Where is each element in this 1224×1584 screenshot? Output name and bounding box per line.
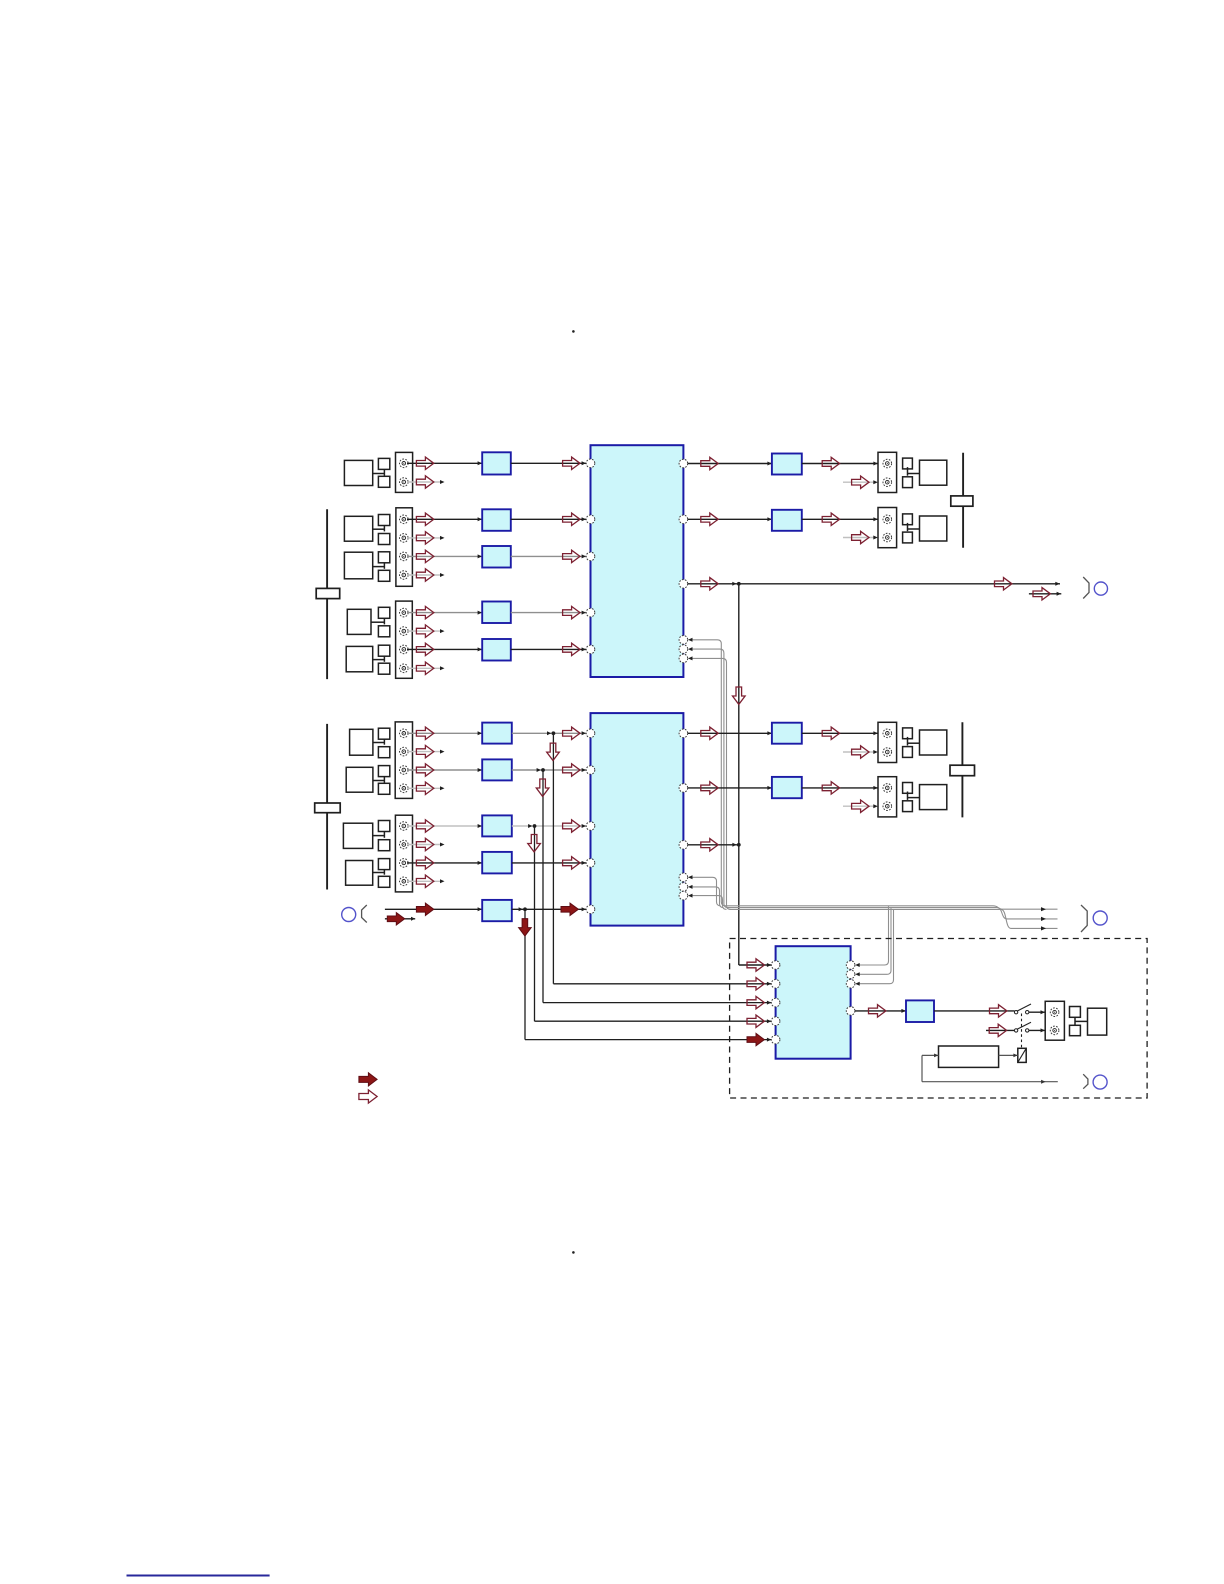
- wire rowA1 to filter: [407, 731, 482, 735]
- wire filter10 to selector: [512, 907, 586, 911]
- signal flow arrow: [747, 959, 764, 971]
- wire filter2 to selector IC: [511, 517, 586, 521]
- record-out bundle to recorder: [724, 906, 1057, 931]
- input selector IC U2: [591, 713, 684, 926]
- pin U2-in1: [586, 729, 595, 738]
- pin U2-out3: [679, 841, 688, 850]
- signal flow arrow: [563, 513, 580, 525]
- pin U1-out2: [679, 515, 688, 524]
- filter block F10: [482, 900, 512, 921]
- pin U2-in2: [586, 766, 595, 775]
- input jack block J3: [396, 601, 413, 678]
- input jack block J5: [395, 815, 412, 892]
- signal flow arrow: [416, 643, 433, 655]
- input device box 1 (CD player): [344, 458, 389, 487]
- pin U2-rec1: [679, 873, 688, 882]
- signal flow arrow: [416, 875, 433, 887]
- wire buffer to rec switch: [934, 1010, 1015, 1012]
- wire U1 out1 to amp: [688, 462, 772, 466]
- filter block F6: [482, 723, 512, 744]
- signal flow arrow: [701, 513, 718, 525]
- signal flow arrow: [416, 820, 433, 832]
- feed stub to jack R3b: [843, 750, 878, 754]
- speaker output group R3: [878, 722, 947, 762]
- terminated stub row3b: [407, 573, 445, 577]
- signal flow arrow down: [733, 687, 746, 704]
- input device box 2 (MD deck): [344, 515, 389, 545]
- pin U1-in5: [586, 645, 595, 654]
- wire U1 out3 line-out: [688, 582, 1060, 586]
- terminated stub row5b: [407, 666, 445, 670]
- wire amp3 to speaker jack: [802, 731, 878, 735]
- wire CD signal to filter: [407, 461, 482, 465]
- signal flow arrow: [990, 1005, 1007, 1017]
- signal flow arrow: [747, 1015, 764, 1027]
- signal flow arrow: [822, 782, 839, 794]
- filter block F8: [482, 815, 512, 836]
- signal flow arrow down: [547, 743, 560, 760]
- wire row4 to filter: [407, 611, 482, 615]
- pin U3-in5: [771, 1035, 780, 1044]
- record mute switch SW1: [1014, 1004, 1031, 1014]
- pin U2-out2: [679, 784, 688, 793]
- signal flow arrow: [416, 569, 433, 581]
- signal flow arrow: [563, 764, 580, 776]
- signal flow arrow: [416, 727, 433, 739]
- signal flow arrow down: [536, 779, 549, 796]
- pin U2-rec3: [679, 891, 688, 900]
- wire rowA2 to filter: [407, 768, 482, 772]
- pin U3-in1: [771, 961, 780, 970]
- signal flow arrow: [563, 606, 580, 618]
- signal flow arrow: [416, 513, 433, 525]
- signal flow arrow: [747, 996, 764, 1008]
- wire filter5 to selector IC: [511, 647, 586, 651]
- wire row3 to filter: [407, 554, 482, 558]
- terminated stub rowA1b: [407, 750, 445, 754]
- bus bar with terminal plate (S1): [316, 509, 340, 679]
- phono source circle: [342, 908, 356, 922]
- wire control to relay: [999, 1054, 1018, 1058]
- wire U1 out2 to amp: [688, 517, 772, 521]
- tap wire A1 to U3 pin2: [553, 733, 771, 986]
- wire switch to rec jack: [1029, 1010, 1045, 1014]
- terminated stub rowB3b: [407, 843, 445, 847]
- signal flow arrow down solid: [519, 919, 532, 936]
- wire U3 out to buffer: [855, 1009, 906, 1013]
- signal flow arrow: [416, 745, 433, 757]
- line-out target circle: [1094, 582, 1107, 595]
- connector bracket: [1081, 905, 1087, 932]
- amp block A4: [772, 777, 802, 798]
- pin U3-out: [846, 1007, 855, 1016]
- signal flow arrow: [822, 727, 839, 739]
- feed stub to jack R1b: [843, 480, 878, 484]
- buffer block F11: [906, 1000, 934, 1022]
- aux stub line-out: [1029, 592, 1061, 596]
- signal flow arrow: [416, 857, 433, 869]
- filter block F7: [482, 759, 512, 780]
- signal flow arrow: [852, 476, 869, 488]
- pin U1-rec1: [679, 636, 688, 645]
- rec jack block J6: [1045, 1001, 1064, 1040]
- pin U1-rec2: [679, 645, 688, 654]
- signal flow arrow: [563, 457, 580, 469]
- wire rowB4 to filter: [407, 861, 482, 865]
- wire row5 to filter: [407, 647, 482, 651]
- signal flow arrow: [563, 820, 580, 832]
- wire U2 out2 to amp: [688, 786, 772, 790]
- speaker output group R1: [878, 452, 947, 492]
- signal flow arrow: [416, 532, 433, 544]
- footer link line: [127, 1575, 270, 1577]
- terminated stub row2b: [407, 536, 445, 540]
- signal flow arrow: [416, 662, 433, 674]
- signal flow arrow: [822, 513, 839, 525]
- pin U3-in3: [771, 998, 780, 1007]
- signal flow arrow: [416, 782, 433, 794]
- rec plug square: [1070, 1025, 1081, 1035]
- system control block: [939, 1046, 999, 1067]
- pin U1-in1: [586, 459, 595, 468]
- recorder target circle: [1093, 911, 1107, 925]
- input jack block J1: [396, 452, 413, 492]
- wire filter3 to selector IC: [511, 554, 586, 558]
- signal flow arrow: [416, 550, 433, 562]
- record mute switch SW2: [1014, 1022, 1031, 1032]
- input device box 3 (tape deck): [344, 552, 389, 582]
- signal flow arrow: [822, 457, 839, 469]
- filter block F2: [482, 509, 511, 531]
- rec plug square: [1070, 1007, 1081, 1018]
- signal flow arrow solid: [387, 913, 404, 925]
- signal flow arrow: [563, 550, 580, 562]
- signal flow arrow: [701, 457, 718, 469]
- feed stub to jack R2b: [843, 536, 878, 540]
- wire filter6 to selector, tap junction: [512, 731, 586, 735]
- signal flow arrow: [416, 457, 433, 469]
- wire amp1 to speaker jack: [802, 462, 878, 466]
- filter block F3: [482, 546, 511, 568]
- input device box 4 (tuner): [347, 607, 390, 637]
- pin U2-in5: [586, 905, 595, 914]
- pin U1-in3: [586, 552, 595, 561]
- signal flow arrow: [701, 839, 718, 851]
- junction at vertical feed: [732, 582, 740, 586]
- signal flow arrow: [416, 476, 433, 488]
- signal flow arrow: [869, 1005, 886, 1017]
- tap wire B3 to U3 pin4: [535, 826, 772, 1023]
- signal flow arrow: [416, 606, 433, 618]
- signal flow arrow: [701, 578, 718, 590]
- wire filter to selector IC: [511, 461, 586, 465]
- feed stub to rec jack 2: [986, 1029, 1015, 1031]
- speaker output group R2: [878, 508, 947, 548]
- input device box 6: [350, 728, 390, 758]
- control target circle: [1093, 1075, 1107, 1089]
- wire amp4 to speaker jack: [802, 786, 878, 790]
- dashed enclosure (record selector unit): [730, 939, 1148, 1099]
- signal flow arrow: [563, 857, 580, 869]
- signal flow arrow: [701, 727, 718, 739]
- amp block A3: [772, 723, 802, 744]
- filter block F9: [482, 852, 512, 874]
- filter block F4: [482, 602, 511, 624]
- wire row2 to filter: [407, 517, 482, 521]
- wire vertical feed to record selector: [739, 584, 772, 967]
- signal flow arrow: [701, 782, 718, 794]
- input device box 5 (aux): [346, 645, 390, 674]
- wire U2 out1 to amp: [688, 731, 772, 735]
- wire rowB3 to filter: [407, 824, 482, 828]
- bus bar with terminal plate (S2): [315, 724, 341, 890]
- stray dot: [572, 1251, 575, 1254]
- signal flow arrow solid: [416, 903, 433, 915]
- pin U1-in2: [586, 515, 595, 524]
- pin U3-mon3: [846, 979, 855, 988]
- signal flow arrow solid: [561, 903, 578, 915]
- connector bracket: [1083, 577, 1089, 599]
- signal flow arrow: [995, 578, 1012, 590]
- wire amp2 to speaker jack: [802, 517, 878, 521]
- record-out bundle from U1: [688, 638, 731, 910]
- wire filter8 to selector, tap junction: [512, 824, 586, 828]
- input device box 8: [343, 821, 389, 851]
- speaker output group R4: [878, 777, 947, 817]
- connector bracket: [362, 905, 367, 923]
- terminated stub rowB4b: [407, 879, 445, 883]
- legend solid arrow: [359, 1073, 377, 1086]
- mute relay K1: [1018, 1048, 1026, 1062]
- terminated stub row4b: [407, 629, 445, 633]
- wire U2 out3 to feed line: [688, 843, 741, 847]
- record-out bundle from U2: [688, 875, 727, 909]
- signal flow arrow solid: [747, 1033, 764, 1045]
- input device box 9: [346, 859, 390, 888]
- phono stub line: [385, 917, 415, 921]
- signal flow arrow down: [528, 835, 541, 852]
- amp block A2: [772, 510, 802, 531]
- speaker bus bar S2: [950, 722, 975, 817]
- signal flow arrow: [416, 625, 433, 637]
- pin U1-out3: [679, 580, 688, 589]
- pin U3-mon1: [846, 961, 855, 970]
- wire phono to filter, tap junction: [385, 907, 527, 911]
- terminated stub CD 2nd jack: [407, 480, 445, 484]
- filter block F1: [482, 452, 511, 474]
- wire control input loop: [922, 1054, 1058, 1084]
- wire switch2 to rec jack: [1029, 1028, 1045, 1032]
- input jack block J2: [396, 508, 413, 587]
- pin U2-out1: [679, 729, 688, 738]
- speaker bus bar S1: [951, 453, 973, 548]
- pin U2-in3: [586, 822, 595, 831]
- signal flow arrow: [852, 746, 869, 758]
- recorder device box: [1088, 1008, 1107, 1035]
- pin U3-in4: [771, 1017, 780, 1026]
- amp block A1: [772, 454, 802, 475]
- pin U2-rec2: [679, 883, 688, 892]
- signal flow arrow: [852, 531, 869, 543]
- signal flow arrow: [563, 727, 580, 739]
- record bundle branch to U3: [855, 906, 893, 985]
- input jack block J4: [395, 722, 412, 799]
- terminated stub rowA2b: [407, 786, 445, 790]
- signal flow arrow: [747, 978, 764, 990]
- pin U2-in4: [586, 859, 595, 868]
- filter block F5: [482, 639, 511, 661]
- input device box 7: [346, 766, 390, 795]
- wire filter4 to selector IC: [511, 611, 586, 615]
- pin U3-mon2: [846, 970, 855, 979]
- record selector IC U3: [776, 946, 851, 1058]
- signal flow arrow: [416, 838, 433, 850]
- tap wire phono to U3 pin5: [525, 909, 772, 1041]
- legend hollow arrow: [359, 1090, 377, 1103]
- pin U1-in4: [586, 608, 595, 617]
- signal flow arrow: [852, 800, 869, 812]
- signal flow arrow: [563, 643, 580, 655]
- wire filter9 to selector: [512, 861, 586, 865]
- input selector IC U1: [591, 445, 684, 677]
- feed stub to jack R4b: [843, 804, 878, 808]
- pin U1-rec3: [679, 654, 688, 663]
- stray dot: [572, 330, 575, 333]
- signal flow arrow: [989, 1024, 1006, 1036]
- signal flow arrow: [416, 764, 433, 776]
- wire filter7 to selector, tap junction: [512, 768, 586, 772]
- signal flow arrow: [1033, 588, 1050, 600]
- recorder connector: [1075, 1017, 1088, 1025]
- pin U1-out1: [679, 459, 688, 468]
- connector bracket: [1083, 1074, 1088, 1089]
- tap wire A2 to U3 pin3: [543, 770, 772, 1005]
- pin U3-in2: [771, 980, 780, 989]
- switch control dashed link: [1021, 1014, 1023, 1049]
